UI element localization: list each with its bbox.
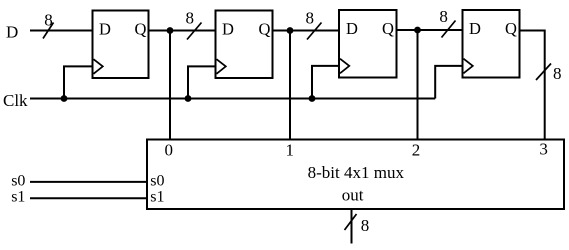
bus slash out 8: [345, 214, 357, 230]
svg-text:s0: s0: [150, 173, 164, 190]
wire Clk to U3 clock: [312, 66, 339, 99]
svg-text:D: D: [99, 20, 111, 39]
svg-text:8: 8: [186, 8, 195, 27]
svg-text:8: 8: [306, 8, 315, 27]
junction Clk at U2 riser: [185, 95, 192, 102]
svg-text:out: out: [342, 186, 364, 205]
svg-text:s1: s1: [150, 188, 164, 205]
svg-text:2: 2: [412, 140, 421, 159]
svg-text:D: D: [222, 20, 234, 39]
svg-text:D: D: [6, 23, 18, 42]
junction node Q2: [414, 27, 421, 34]
flip-flop U3: [339, 10, 397, 78]
svg-text:D: D: [469, 19, 481, 38]
flip-flop U2: [216, 11, 273, 79]
junction node Q0: [167, 27, 174, 34]
svg-text:s1: s1: [11, 188, 25, 205]
svg-text:Q: Q: [259, 20, 271, 39]
wire Q2 U3 to U4: [397, 29, 463, 31]
wire s1 to mux: [30, 197, 147, 199]
multiplexer U5: [147, 140, 564, 210]
wire D to U1: [30, 30, 92, 32]
svg-text:8: 8: [439, 7, 448, 26]
bus slash Q2 8: [442, 21, 456, 38]
wire Clk to U4 clock: [435, 66, 462, 99]
svg-text:Q: Q: [135, 20, 147, 39]
junction node Q1: [287, 27, 294, 34]
wire Q1 to mux input 1: [289, 31, 291, 142]
bus slash Q3 8: [536, 64, 551, 81]
wire Clk to U2 clock: [188, 66, 215, 98]
wire Q3 U4 to corner: [520, 31, 545, 141]
junction Clk at U3 riser: [309, 95, 316, 102]
svg-text:Clk: Clk: [3, 91, 28, 110]
svg-text:8: 8: [361, 216, 370, 235]
svg-text:1: 1: [286, 140, 295, 159]
svg-text:D: D: [346, 19, 358, 38]
svg-text:8: 8: [553, 64, 562, 83]
bus slash Q1 8: [307, 23, 322, 40]
svg-text:Q: Q: [505, 19, 517, 38]
flip-flop U4: [463, 10, 520, 78]
wire Q2 to mux input 2: [417, 30, 419, 142]
svg-text:s0: s0: [11, 173, 25, 190]
svg-text:Q: Q: [382, 19, 394, 38]
svg-text:8: 8: [44, 11, 53, 30]
bus slash D 8: [43, 23, 54, 39]
wire Q0 U1 to U2: [149, 30, 216, 32]
wire Clk rail: [30, 98, 435, 100]
wire mux out: [351, 209, 353, 244]
bus slash Q0 8: [187, 23, 202, 40]
svg-text:8-bit 4x1 mux: 8-bit 4x1 mux: [308, 163, 405, 182]
wire Clk to U1 clock: [64, 66, 92, 98]
svg-text:3: 3: [539, 140, 548, 159]
wire s0 to mux: [30, 181, 147, 183]
wire Q0 to mux input 0: [169, 31, 171, 142]
flip-flop U1: [93, 11, 149, 79]
junction Clk at U1 riser: [61, 95, 68, 102]
svg-text:0: 0: [165, 140, 174, 159]
wire Q1 U2 to U3: [273, 30, 340, 32]
